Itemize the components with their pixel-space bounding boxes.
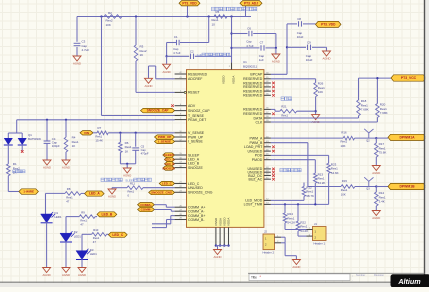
wire LOST_TMR net <box>271 203 329 205</box>
power port PT3_VDD (top-left) <box>179 1 200 6</box>
wire R17 top <box>375 138 377 143</box>
svg-text:DPWM1B: DPWM1B <box>399 185 415 189</box>
svg-text:RESERVED: RESERVED <box>243 94 263 98</box>
Altium logo <box>391 274 429 287</box>
svg-text:AGND: AGND <box>43 273 51 277</box>
svg-text:LED_B: LED_B <box>101 212 112 216</box>
wire top net <box>77 16 251 18</box>
wire COMM_B- run <box>152 220 175 228</box>
svg-text:10uF: 10uF <box>297 35 304 39</box>
wire R3 to RESET <box>136 61 175 92</box>
wire C6C7 vertical <box>231 17 233 63</box>
ground AGND <box>62 160 70 170</box>
wire R14 bottom <box>375 206 377 211</box>
junction top-net / C6 branch <box>230 15 232 17</box>
wire port2 stub <box>245 6 247 17</box>
wire R22 to J1 pin2 <box>298 231 307 236</box>
wire PT3_VCC net <box>359 78 392 103</box>
svg-text:54.6K: 54.6K <box>331 171 339 175</box>
wire Q1 drop <box>8 120 22 138</box>
wire R4 bottom <box>65 152 67 160</box>
svg-text:PMOD: PMOD <box>252 158 263 162</box>
wire R24 top <box>284 204 286 213</box>
svg-text:R10: R10 <box>93 228 99 232</box>
svg-text:SNOOZE_CNG: SNOOZE_CNG <box>151 191 173 195</box>
wire R22 top <box>297 204 299 221</box>
junction R20 top <box>376 77 378 79</box>
capacitor C7 <box>259 41 265 62</box>
svg-text:1K: 1K <box>72 144 76 148</box>
svg-text:7.68K: 7.68K <box>361 108 369 112</box>
svg-text:C1: C1 <box>174 35 178 39</box>
svg-text:15.4K: 15.4K <box>95 139 103 143</box>
svg-text:SNOOZ_CAP: SNOOZ_CAP <box>188 109 210 113</box>
ground AGND <box>144 78 152 88</box>
svg-text:PT3_VDD: PT3_VDD <box>182 1 197 5</box>
svg-text:PWR_UP: PWR_UP <box>158 135 171 139</box>
ground AGND <box>322 51 330 61</box>
svg-text:RESERVED: RESERVED <box>188 72 208 76</box>
wire J2 to AGND <box>281 237 296 259</box>
svg-text:VIN: VIN <box>84 131 89 135</box>
wire LED_MOD net <box>271 196 304 200</box>
connector J1 Header <box>307 222 327 246</box>
wire C8 branch <box>287 23 316 25</box>
junction C7/AGND <box>275 47 277 49</box>
capacitor C1 <box>173 35 181 55</box>
wire BPCAP riser <box>271 24 287 74</box>
svg-text:470pF: 470pF <box>141 152 149 156</box>
resistor R26 <box>314 82 325 97</box>
wire T_SENSE net <box>102 17 175 116</box>
svg-text:48.7K: 48.7K <box>306 194 314 198</box>
svg-text:LED_C: LED_C <box>112 233 123 237</box>
junction R6 <box>119 132 121 134</box>
svg-text:SNOOZE: SNOOZE <box>188 166 203 170</box>
svg-text:10K: 10K <box>341 192 346 196</box>
power port PT3_VCC <box>391 75 426 81</box>
power port PT3_ADJ (top) <box>240 1 262 6</box>
port LED_B <box>97 212 117 217</box>
resistor R10 <box>92 228 107 244</box>
junction C2 net <box>165 55 167 57</box>
wire COMM_A- jog <box>154 210 174 212</box>
resistor R5 <box>212 10 228 27</box>
svg-text:Header 1: Header 1 <box>314 241 326 245</box>
svg-text:LED1: LED1 <box>55 215 62 219</box>
svg-text:R21: R21 <box>281 105 287 109</box>
svg-text:R9: R9 <box>81 210 85 214</box>
wire R15 to Q3 <box>355 186 376 188</box>
junction top-net / port stub <box>186 15 188 17</box>
ground AGND <box>73 56 81 66</box>
resistor R15 <box>341 179 355 196</box>
wire C3 top <box>76 17 78 42</box>
resistor R6 <box>119 141 132 154</box>
svg-text:47: 47 <box>66 199 70 203</box>
note: test (chinese) <box>281 97 292 101</box>
svg-text:AGND: AGND <box>372 216 380 220</box>
wire Q1 to R1 <box>7 145 9 164</box>
resistor R18 <box>357 99 369 116</box>
IC U1 top pin <box>229 0 232 70</box>
port DPWM1B <box>388 183 426 189</box>
resistor R7 <box>95 126 108 143</box>
net label SLEEP <box>163 153 175 157</box>
wire R21 to AGND <box>297 111 316 114</box>
svg-text:75.6K: 75.6K <box>379 151 387 155</box>
junction C6 <box>230 32 232 34</box>
svg-text:AGND: AGND <box>292 265 300 269</box>
svg-text:47: 47 <box>93 240 97 244</box>
port LED_C <box>108 232 127 237</box>
svg-text:1K: 1K <box>140 53 144 57</box>
resistor R23 <box>327 162 339 175</box>
svg-text:U1: U1 <box>243 60 247 64</box>
resistor R4 <box>64 136 79 153</box>
wire R6/C5 join <box>120 150 135 164</box>
wire AGND stem (C1/C2) <box>166 56 168 64</box>
svg-text:R15: R15 <box>342 179 348 183</box>
svg-text:SLEEP: SLEEP <box>164 153 174 157</box>
wire R1 to port <box>8 176 19 192</box>
svg-text:10: 10 <box>212 23 216 27</box>
svg-text:SNOOZE_CNG: SNOOZE_CNG <box>188 191 213 195</box>
note: value TBD (chinese) <box>280 168 301 171</box>
ground AGND <box>123 168 131 178</box>
wire C7 branch <box>232 47 276 49</box>
resistor R22 <box>296 220 308 233</box>
svg-text:RESERVED: RESERVED <box>243 108 263 112</box>
wire C4 top <box>46 120 48 141</box>
net label COMM- <box>138 207 155 211</box>
svg-text:1uF: 1uF <box>197 53 202 57</box>
svg-text:BUZ_AC: BUZ_AC <box>248 178 262 182</box>
wire DATA net <box>271 116 359 118</box>
svg-text:DPWM1A: DPWM1A <box>399 136 415 140</box>
wire R6 top <box>119 133 121 143</box>
wire UNUSED net <box>112 188 175 189</box>
junction top-net / T_SENSE drop <box>100 15 102 17</box>
junction C4 <box>46 119 48 121</box>
junction R24 <box>284 203 286 205</box>
svg-text:SNOOZE: SNOOZE <box>162 166 175 170</box>
transistor Q2 <box>364 129 373 143</box>
wire R14 top <box>375 187 377 193</box>
svg-text:R7: R7 <box>98 126 102 130</box>
svg-text:J2: J2 <box>264 229 267 233</box>
LED D2 <box>60 230 81 242</box>
wire LED_A net <box>46 193 85 214</box>
resistor R17 <box>375 142 387 157</box>
wire R24 to J1 pin1 <box>285 223 307 230</box>
svg-text:4.7uF: 4.7uF <box>246 44 254 48</box>
svg-text:AGND: AGND <box>372 171 380 175</box>
svg-text:AGND: AGND <box>272 60 280 64</box>
svg-text:VDDD: VDDD <box>222 75 226 84</box>
svg-text:BQ500211: BQ500211 <box>243 65 257 69</box>
net label SNOOZE_CAP <box>141 108 175 112</box>
wire VIN to R7 <box>93 132 97 134</box>
resistor R13 <box>314 172 326 185</box>
wire R17 bottom <box>375 157 377 166</box>
svg-text:R2: R2 <box>108 11 112 15</box>
wire LED_C net <box>82 234 108 250</box>
svg-text:4.7uF: 4.7uF <box>82 48 90 52</box>
svg-text:C9: C9 <box>307 40 311 44</box>
ground AGND (R11 net) <box>108 189 116 199</box>
junction C9 <box>286 46 288 48</box>
svg-text:CLK: CLK <box>255 120 262 124</box>
transistor Q3 <box>364 177 373 191</box>
svg-text:C7: C7 <box>260 41 264 45</box>
svg-text:COMM+: COMM+ <box>140 203 152 207</box>
svg-text:4.7uF: 4.7uF <box>173 51 181 55</box>
wire bottom pins AGND stem <box>217 246 219 250</box>
wire C5 top <box>135 133 137 147</box>
wire POD net <box>271 155 329 163</box>
junction DPWM1A <box>375 137 377 139</box>
junction C5 <box>135 132 137 134</box>
junction R13 <box>314 203 316 205</box>
junction top-net / R3 <box>135 15 137 17</box>
wire C3 bottom <box>76 47 78 56</box>
net label COMM+ <box>138 203 155 207</box>
resistor R16 <box>341 131 355 148</box>
svg-text:1uF: 1uF <box>259 58 264 62</box>
svg-text:COMM_B-: COMM_B- <box>188 218 205 222</box>
junction top-net / C1 branch <box>208 15 210 17</box>
wire R26 bottom <box>315 97 317 115</box>
svg-text:AGND: AGND <box>73 62 81 66</box>
wire PEAK_DET net <box>17 119 175 121</box>
svg-text:AGND: AGND <box>144 84 152 88</box>
svg-text:AGND: AGND <box>123 174 131 178</box>
junction AGND stem <box>126 163 128 165</box>
IC U1 left pins <box>171 72 213 222</box>
wire R13 bottom <box>314 183 316 204</box>
svg-text:Altium: Altium <box>397 277 421 286</box>
wire RESERVED to R26 <box>271 79 316 83</box>
wire R23 bottom <box>328 173 330 204</box>
title block <box>248 273 425 281</box>
svg-text:SNOOZE_CAP: SNOOZE_CAP <box>147 109 170 113</box>
svg-text:AGND: AGND <box>78 273 86 277</box>
svg-text:Revision: Revision <box>374 273 385 277</box>
svg-text:UNUSED: UNUSED <box>188 186 203 190</box>
svg-text:Res1: Res1 <box>281 113 288 117</box>
wire R12 top <box>303 183 305 187</box>
port DPWM1A <box>388 134 426 140</box>
LED D3 <box>76 248 97 260</box>
ground AGND <box>292 260 300 270</box>
net label SNOOZE <box>162 166 175 170</box>
junction R4 <box>65 119 67 121</box>
wire ADCREF hook <box>149 66 175 79</box>
svg-text:1-WIRE: 1-WIRE <box>23 190 34 194</box>
resistor R14 <box>375 191 386 206</box>
svg-text:PT3_VDD: PT3_VDD <box>321 23 336 27</box>
wire PWM_B net <box>271 143 341 187</box>
capacitor C8 <box>297 17 304 39</box>
resistor R24 <box>283 212 295 225</box>
capacitor C3 <box>74 40 90 53</box>
svg-text:R8: R8 <box>67 187 71 191</box>
wire R4 top <box>65 120 67 137</box>
capacitor C6 <box>246 26 254 48</box>
svg-text:AGND: AGND <box>108 195 116 199</box>
svg-text:PT3_VCC: PT3_VCC <box>401 76 417 80</box>
wire C1 net <box>180 17 209 43</box>
svg-text:AGND: AGND <box>62 273 70 277</box>
wire V_SENSE net <box>108 132 174 134</box>
svg-text:54.2K: 54.2K <box>287 221 295 225</box>
svg-text:VDDA: VDDA <box>232 76 236 84</box>
net label LED_A (pin) <box>165 157 176 161</box>
svg-text:C2: C2 <box>190 49 194 53</box>
svg-text:LED1: LED1 <box>90 252 97 256</box>
wire D1 to AGND <box>46 222 48 268</box>
ground AGND <box>43 160 51 170</box>
svg-text:7.68K: 7.68K <box>380 111 388 115</box>
port LED_A <box>85 191 105 196</box>
wire COMM_B+ run <box>152 216 175 224</box>
svg-text:Header 2: Header 2 <box>263 250 275 254</box>
svg-text:LED_A: LED_A <box>89 192 100 196</box>
wire D2 to AGND <box>65 241 67 267</box>
svg-text:10K: 10K <box>341 144 346 148</box>
svg-text:47: 47 <box>80 223 84 227</box>
net label LED_B (pin) <box>165 162 176 166</box>
note: test sleep (chinese) <box>101 178 151 182</box>
resistor R2 <box>104 11 122 27</box>
svg-text:AGND: AGND <box>213 255 221 259</box>
svg-text:PT3_ADJ: PT3_ADJ <box>244 1 258 5</box>
wire port stub <box>187 6 189 17</box>
wire C9 branch <box>287 47 327 51</box>
capacitor C5 <box>132 144 149 155</box>
svg-text:PWM_A: PWM_A <box>249 136 263 140</box>
junction DPWM1B <box>375 185 377 187</box>
svg-text:10uF: 10uF <box>306 58 313 62</box>
ground AGND <box>62 268 70 278</box>
junction R21/AGND <box>314 110 316 112</box>
wire AGND stem (C7) <box>275 48 277 54</box>
IC U1 bottom pins <box>214 217 231 247</box>
svg-text:C8: C8 <box>297 17 301 21</box>
ground AGND <box>372 211 380 221</box>
svg-text:RESET: RESET <box>188 91 201 95</box>
note: adjust value (chinese) <box>13 170 25 173</box>
svg-text:I_SENSE: I_SENSE <box>158 140 171 144</box>
resistor R9 <box>79 210 95 226</box>
svg-text:BPCAP: BPCAP <box>250 73 263 77</box>
net label I_SENSE <box>155 139 175 143</box>
svg-text:R11: R11 <box>130 182 135 186</box>
wire CLK net <box>271 118 378 123</box>
svg-text:AGND: AGND <box>163 70 171 74</box>
svg-text:Q3: Q3 <box>366 188 370 191</box>
svg-text:3.4K: 3.4K <box>379 200 385 204</box>
wire COMM_A+ jog <box>154 205 174 208</box>
port VIN <box>80 131 93 135</box>
svg-text:BAT54SW: BAT54SW <box>28 137 41 141</box>
no-connect x (Q1) <box>21 150 24 153</box>
svg-text:C6: C6 <box>247 26 251 30</box>
resistor R21 <box>280 105 297 118</box>
svg-text:Number: Number <box>356 273 365 277</box>
svg-text:10K: 10K <box>318 90 323 94</box>
IC U1 top pin names (rotated) <box>222 75 236 84</box>
wire to DPWM1B <box>376 186 388 188</box>
wire C4 bottom <box>46 143 48 160</box>
svg-text:COMM-: COMM- <box>141 208 152 212</box>
svg-text:LED1: LED1 <box>74 235 81 239</box>
note: 1uF 0603 (chinese) <box>197 53 230 57</box>
wire C2 net <box>167 55 232 57</box>
capacitor C9 <box>306 40 313 62</box>
svg-text:COMM_A-: COMM_A- <box>188 210 205 214</box>
svg-text:1K: 1K <box>125 149 129 153</box>
svg-text:J1: J1 <box>314 222 317 226</box>
svg-text:AGND: AGND <box>43 166 51 170</box>
net label LED_C (pin) <box>159 181 174 185</box>
ground AGND <box>372 166 380 176</box>
resistor R12 <box>302 185 314 198</box>
wire to DPWM1A <box>376 137 388 139</box>
net label PWR_UP <box>155 135 175 139</box>
wire PMOD net <box>271 160 315 174</box>
ground AGND <box>163 64 171 74</box>
wire R16 to Q2 <box>355 137 377 139</box>
power port PT3_VDD (mid) <box>316 21 342 27</box>
svg-text:AGND: AGND <box>322 57 330 61</box>
svg-text:100pF: 100pF <box>52 144 60 148</box>
ground AGND <box>213 250 221 260</box>
svg-text:I_SENSE: I_SENSE <box>188 140 203 144</box>
resistor R1 <box>7 162 21 176</box>
wire C1 left / down <box>167 43 177 57</box>
wire R3 top <box>135 17 137 46</box>
capacitor C2 <box>190 49 194 59</box>
resistor R11 <box>127 182 143 198</box>
svg-text:Q2: Q2 <box>366 139 370 142</box>
svg-text:ADV: ADV <box>188 104 196 108</box>
resistor R8 <box>65 187 81 203</box>
resistor R20 <box>376 103 388 118</box>
ground AGND <box>43 268 51 278</box>
ground AGND <box>272 54 280 64</box>
diode Q1 BAT54SW <box>4 133 42 145</box>
note: resistor placement (chinese) <box>212 7 257 11</box>
wire D3 to AGND <box>81 259 83 268</box>
LED D1 <box>41 211 62 223</box>
wire LED_B net <box>66 217 97 234</box>
svg-text:10K: 10K <box>106 23 111 27</box>
wire PWM_A net <box>271 137 343 139</box>
wire AGND stem (R6/C5) <box>126 164 128 168</box>
junction C7 <box>230 47 232 49</box>
resistor R3 <box>134 45 147 62</box>
wire RESERVED to R21 <box>271 109 280 111</box>
svg-text:ADCREF: ADCREF <box>188 77 202 81</box>
port 1-WIRE <box>19 189 39 195</box>
svg-text:Title: Title <box>251 276 257 280</box>
svg-text:LOST_TMR: LOST_TMR <box>244 203 263 207</box>
svg-text:PEAK_DET: PEAK_DET <box>188 118 207 122</box>
IC U1 right pins <box>243 73 275 207</box>
connector J2 Header <box>263 229 282 254</box>
